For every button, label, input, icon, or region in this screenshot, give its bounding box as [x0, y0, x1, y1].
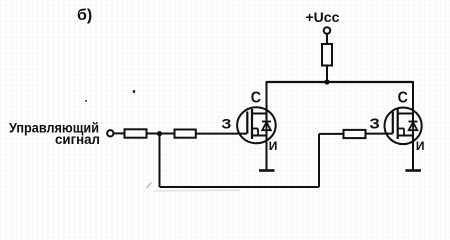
- body diode VD2 of VT2: [409, 122, 418, 131]
- scan speck 2: [133, 90, 135, 93]
- junction node A: [157, 131, 162, 136]
- transistor VT1 source stub: [252, 135, 267, 137]
- transistor VT1 channel: [251, 109, 253, 139]
- wire VT2 source column: [412, 130, 414, 170]
- svg-text:сигнал: сигнал: [55, 131, 100, 147]
- transistor VT1 drain stub: [252, 113, 267, 115]
- svg-text:И: И: [269, 139, 278, 153]
- scan scratch near link corner: [147, 183, 152, 189]
- resistor R3: [344, 130, 366, 138]
- wire VT1 drain column: [266, 81, 268, 122]
- transistor VT1 substrate stub: [252, 129, 258, 136]
- wire input terminal to R1: [114, 132, 124, 134]
- ground GND2: [405, 169, 421, 172]
- junction rail node: [324, 79, 329, 84]
- transistor VT2 channel: [397, 109, 399, 139]
- terminal input: [107, 130, 113, 136]
- wire link to R3: [319, 133, 343, 135]
- scan speck 1: [85, 100, 87, 102]
- wire VT2 drain column: [412, 81, 414, 122]
- wire R2 to VT1 gate: [196, 133, 247, 135]
- transistor VT1 body circle: [237, 107, 276, 143]
- svg-text:И: И: [416, 139, 425, 153]
- wire bottom link up: [318, 134, 320, 187]
- svg-text:б): б): [77, 7, 92, 24]
- wire VT1 source column: [266, 130, 268, 170]
- transistor VT2 drain stub: [398, 113, 413, 115]
- body diode VD1 of VT1: [262, 122, 271, 131]
- wire +Ucc rail: [267, 81, 414, 83]
- wire junction A to R2: [160, 133, 175, 135]
- resistor R1: [125, 129, 147, 137]
- wire R4 to rail junction: [326, 66, 328, 83]
- svg-text:З: З: [369, 116, 379, 133]
- transistor VT2 body circle: [385, 108, 422, 145]
- wire bottom link across: [160, 186, 320, 188]
- transistor VT2 gate bar: [392, 112, 394, 134]
- wire +Ucc terminal to R4: [326, 34, 328, 43]
- svg-text:C: C: [251, 90, 262, 107]
- scan smudge below bottom wire: [155, 189, 240, 192]
- wire R3 to VT2 gate: [366, 133, 393, 135]
- resistor R4 (drain load): [322, 44, 332, 66]
- resistor R2: [175, 130, 196, 138]
- transistor VT2 substrate stub: [398, 129, 404, 136]
- svg-text:C: C: [398, 90, 409, 107]
- transistor VT1 gate bar: [246, 112, 248, 134]
- input label Управляющий сигнал: [9, 120, 100, 148]
- terminal +Ucc: [324, 27, 331, 34]
- wire R1 to junction A: [147, 133, 160, 135]
- wire junction A down: [159, 134, 161, 187]
- transistor VT2 source stub: [398, 135, 413, 137]
- svg-text:+Ucc: +Ucc: [306, 9, 340, 25]
- svg-text:З: З: [221, 116, 231, 132]
- ground GND1: [259, 169, 275, 172]
